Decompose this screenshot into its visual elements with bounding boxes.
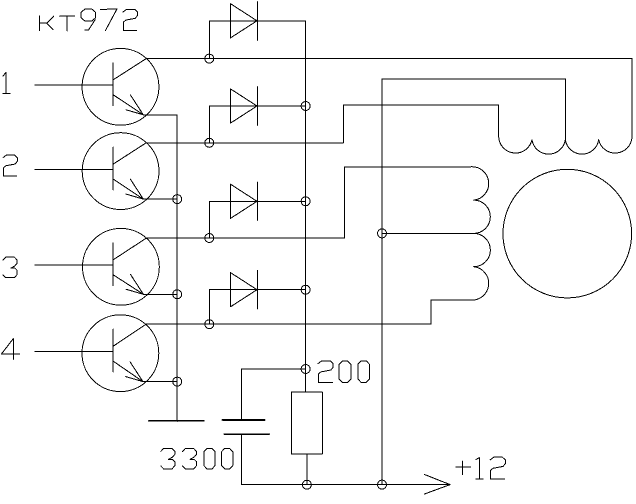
- wire +12 rail: [241, 484, 450, 486]
- winding L1: [499, 137, 632, 154]
- node VT2 emitter: [173, 195, 182, 204]
- capacitor C1: [222, 369, 305, 485]
- winding L2: [470, 167, 490, 300]
- wire collector VT3 to winding L2 top end: [147, 167, 471, 238]
- node VD2 anode: [205, 138, 214, 147]
- node VD3 cathode: [301, 197, 310, 206]
- diode VD3: [209, 182, 305, 238]
- transistor VT1: [35, 48, 159, 125]
- label KT972: [40, 9, 138, 31]
- wire emitter VT2: [143, 198, 177, 200]
- node L2 tap: [378, 229, 387, 238]
- node VT3 emitter: [173, 290, 182, 299]
- resistor R1: [291, 392, 322, 454]
- transistor VT4: [35, 315, 159, 392]
- label 200: [318, 361, 370, 383]
- node VD1 anode: [205, 54, 214, 63]
- node C1 top: [301, 365, 310, 374]
- wire cathode bus: [305, 21, 307, 392]
- diode VD2: [209, 87, 305, 143]
- node VD4 cathode: [301, 285, 310, 294]
- node VT4 emitter: [173, 377, 182, 386]
- wire collector VT4 to winding L2 bottom end: [146, 300, 470, 324]
- ground: [149, 420, 204, 422]
- label 3: [3, 257, 17, 278]
- wire +12 vertical: [381, 79, 383, 485]
- node VD3 anode: [205, 234, 214, 243]
- motor M1: [503, 169, 632, 298]
- transistor VT3: [35, 228, 160, 305]
- wire collector VT2 to winding L1 left end: [146, 105, 499, 143]
- label 4: [2, 339, 20, 360]
- wire emitter VT4: [143, 381, 177, 383]
- diode VD1: [209, 2, 305, 59]
- wire L2 centre tap: [382, 232, 474, 234]
- node VD2 cathode: [301, 102, 310, 111]
- transistor VT2: [35, 133, 159, 210]
- wire emitter common vertical: [143, 115, 177, 422]
- wire L1 centre tap: [382, 79, 565, 140]
- label 2: [3, 155, 17, 176]
- label +12: [456, 457, 506, 479]
- label 3300: [161, 448, 233, 469]
- arrowhead +12: [425, 475, 451, 495]
- diode VD4: [209, 270, 305, 324]
- node +12 bus: [378, 480, 387, 489]
- wire emitter VT3: [143, 293, 177, 295]
- wire collector VT1 to winding L1 right end: [146, 59, 632, 138]
- node VD4 anode: [205, 320, 214, 329]
- node R1 bottom: [302, 480, 311, 489]
- label 1: [3, 72, 10, 93]
